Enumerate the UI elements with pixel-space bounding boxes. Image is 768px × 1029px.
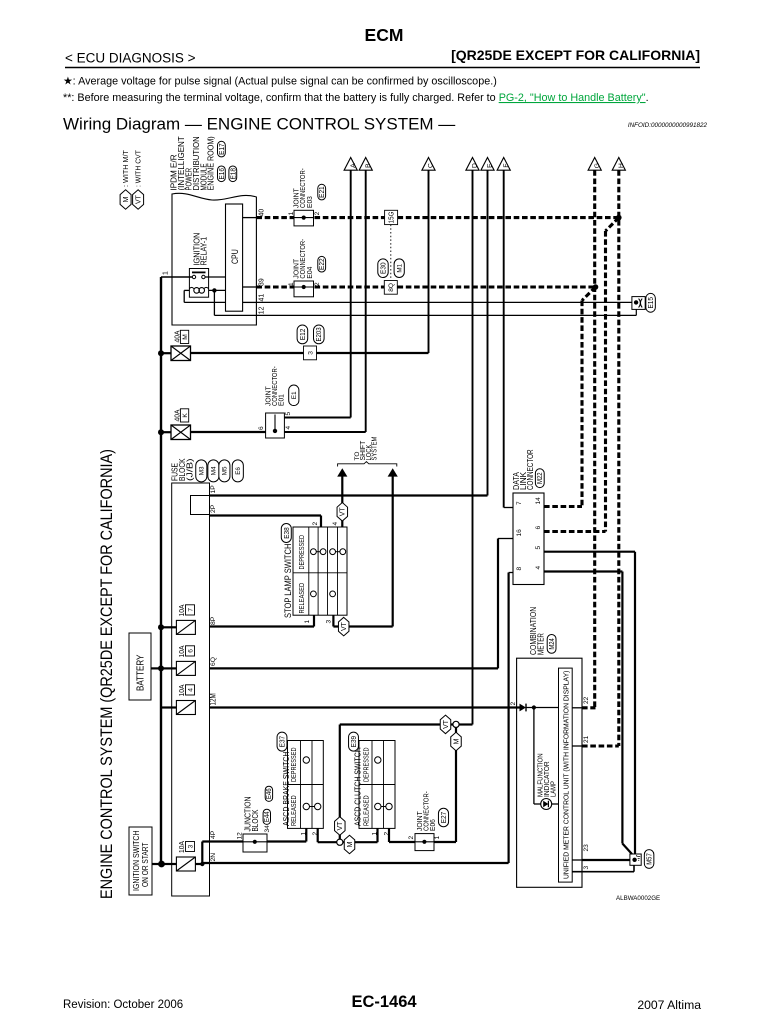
hexagon VT stop pin4	[337, 503, 348, 522]
svg-text:VT: VT	[443, 719, 450, 729]
junction dot bus ignition	[158, 861, 165, 868]
svg-text:3: 3	[325, 620, 332, 624]
svg-text:E03: E03	[305, 196, 314, 208]
svg-text:(J/B): (J/B)	[185, 458, 195, 481]
svg-text:E37: E37	[277, 736, 286, 748]
svg-text:3: 3	[187, 844, 194, 848]
svg-text:4P: 4P	[210, 830, 217, 839]
svg-text:E38: E38	[282, 527, 291, 539]
wire 40A-K to E01	[161, 431, 171, 433]
svg-text:[QR25DE EXCEPT FOR CALIFORNIA]: [QR25DE EXCEPT FOR CALIFORNIA]	[451, 47, 700, 63]
triangle F	[497, 158, 510, 171]
wire 12M	[210, 706, 520, 708]
svg-text:INFOID:0000000000991822: INFOID:0000000000991822	[628, 122, 708, 129]
junction block box	[243, 834, 267, 852]
svg-text:8: 8	[516, 567, 523, 571]
joint connector E03	[294, 210, 314, 226]
svg-text:12: 12	[237, 832, 244, 840]
wire 6Q	[210, 667, 499, 669]
wire coil left	[184, 289, 189, 291]
E03 labels	[288, 168, 321, 215]
connector oval E16	[217, 166, 226, 182]
connector oval E27	[438, 808, 448, 827]
wire riser B	[365, 170, 367, 432]
svg-text:34: 34	[264, 825, 271, 833]
brake pin labels	[301, 832, 320, 836]
wire meter pin23 to ground	[572, 859, 582, 861]
svg-text:2: 2	[312, 522, 319, 526]
connector oval M1	[394, 259, 404, 278]
svg-text:3: 3	[583, 866, 590, 870]
svg-text:40: 40	[258, 209, 265, 217]
wire 1P	[210, 494, 488, 496]
wire riser A	[350, 170, 352, 417]
clutch pin labels	[372, 832, 391, 836]
battery box	[129, 633, 151, 700]
wire bypass vertical	[339, 725, 341, 840]
svg-text:10A: 10A	[177, 604, 186, 617]
svg-text:2N: 2N	[210, 853, 217, 862]
svg-text:ASCD BRAKE SWITCH: ASCD BRAKE SWITCH	[281, 752, 291, 826]
svg-text:M5: M5	[222, 466, 229, 475]
wire MIL branch	[533, 708, 535, 805]
svg-text:ENGINE ROOM): ENGINE ROOM)	[206, 136, 216, 190]
wire MIL to unit	[552, 803, 559, 805]
svg-text:ALBWA0002GE: ALBWA0002GE	[616, 895, 660, 902]
wire M branch down	[455, 728, 457, 843]
svg-text:F: F	[503, 164, 510, 168]
junction block label	[243, 797, 261, 832]
wire diode to meter unit	[526, 707, 559, 709]
svg-text:4: 4	[535, 566, 542, 570]
svg-text:VT: VT	[337, 821, 344, 831]
joint connector E01 box	[266, 413, 285, 438]
arrow to shift lock left	[337, 468, 347, 476]
wire 4P riser	[201, 842, 203, 865]
connector oval E1	[289, 385, 299, 406]
wire meter pin21	[572, 745, 582, 747]
connector oval M3	[196, 460, 207, 482]
wire riser G dashed	[593, 170, 596, 708]
svg-text:2: 2	[314, 211, 321, 215]
joint connector E06 box	[415, 834, 434, 851]
svg-text:23: 23	[583, 844, 590, 852]
label 40A M	[173, 330, 182, 343]
svg-text:ENGINE CONTROL SYSTEM (QR25DE: ENGINE CONTROL SYSTEM (QR25DE EXCEPT FOR…	[97, 449, 116, 899]
connector box 3 on 40A-M wire	[304, 346, 317, 360]
triangle E	[481, 158, 494, 171]
svg-text:E39: E39	[349, 736, 358, 748]
svg-text:RELAY-1: RELAY-1	[200, 236, 209, 265]
shift lock label	[354, 437, 379, 461]
svg-text:7: 7	[516, 501, 523, 505]
wire dashed x605 down	[604, 231, 607, 532]
svg-text:SYSTEM: SYSTEM	[370, 437, 379, 461]
svg-text:6: 6	[187, 649, 194, 653]
svg-text:C: C	[428, 163, 435, 168]
fuse block box	[172, 483, 210, 896]
connector oval M22	[535, 469, 544, 488]
wire main bus	[160, 277, 162, 864]
svg-text:10A: 10A	[177, 684, 186, 697]
svg-text:2P: 2P	[210, 504, 217, 513]
svg-text:E44: E44	[264, 811, 271, 822]
wire ignition switch to bus	[152, 863, 162, 865]
svg-text:E6: E6	[235, 467, 242, 475]
wire CPU pin40 dashed	[256, 216, 617, 219]
wire DLC pin6 dashed	[544, 530, 606, 533]
wire 2N riser to DLC8	[508, 573, 510, 864]
svg-text:2: 2	[314, 282, 321, 286]
svg-text:12M: 12M	[208, 693, 217, 705]
wire DLC pin4 diagonal to ground	[622, 844, 632, 855]
wire riser H dashed	[617, 170, 620, 746]
svg-text:RELEASED: RELEASED	[297, 583, 306, 614]
E06 labels	[408, 791, 441, 840]
svg-text:BLOCK: BLOCK	[250, 809, 260, 831]
svg-text:E203: E203	[316, 327, 323, 341]
IPDM E/R box	[172, 193, 256, 325]
svg-text:ASCD CLUTCH SWITCH: ASCD CLUTCH SWITCH	[353, 747, 363, 826]
wire 4P run	[202, 840, 243, 842]
svg-text:E1: E1	[291, 391, 298, 399]
svg-text:3: 3	[307, 351, 314, 355]
connector oval E6	[232, 460, 243, 482]
wire circle to riser D	[459, 723, 472, 725]
svg-text:H: H	[618, 163, 625, 168]
svg-text:M4: M4	[211, 466, 218, 475]
svg-text:M: M	[182, 334, 189, 340]
svg-text:< ECU DIAGNOSIS >: < ECU DIAGNOSIS >	[65, 51, 196, 66]
wire E06 pin1 to M branch	[434, 841, 456, 843]
svg-text:VT: VT	[341, 621, 348, 631]
junction dot dashed1 right	[616, 215, 622, 221]
svg-text:E17: E17	[217, 143, 226, 155]
connector oval E17	[217, 141, 226, 157]
wire fuse3 in	[162, 863, 177, 865]
connector oval E38	[281, 524, 291, 543]
wire meter pin3 to ground	[572, 871, 634, 873]
junction dot coil	[212, 288, 216, 292]
triangle H	[612, 158, 625, 171]
svg-text:B: B	[365, 163, 372, 168]
option circle upper	[453, 721, 459, 727]
wire 8P	[210, 625, 315, 627]
connector oval E12	[297, 325, 308, 344]
svg-text:10A: 10A	[177, 840, 186, 853]
wire fuse7 in	[161, 626, 176, 628]
ASCD clutch switch E39 box	[359, 741, 395, 829]
wire dashed x582 down	[580, 301, 583, 507]
relay contact bar	[192, 271, 206, 273]
dotted link 15G-8Q	[390, 225, 392, 281]
junction dot bus fuse6	[158, 665, 164, 671]
data link connector box	[513, 493, 544, 585]
relay coil	[194, 288, 200, 294]
wire CPU pin39 stub	[243, 286, 257, 288]
junction dot bus 40A-M	[158, 350, 164, 356]
svg-text:14: 14	[535, 497, 542, 505]
wire meter pin22	[572, 707, 582, 709]
hexagon M ascd	[344, 835, 355, 854]
svg-text:6: 6	[535, 526, 542, 530]
wire battery to bus	[151, 667, 161, 669]
wire bypass horizontal	[340, 723, 453, 725]
svg-text:1: 1	[288, 282, 295, 286]
clutch switch contacts	[375, 757, 393, 810]
svg-text:E22: E22	[317, 258, 326, 270]
connector oval E44	[263, 809, 271, 824]
svg-text:VT: VT	[136, 194, 143, 204]
connector oval M5	[219, 460, 230, 482]
svg-text:M57: M57	[645, 853, 654, 865]
triangle G	[588, 158, 601, 171]
svg-text:CPU: CPU	[230, 249, 241, 264]
fuse 10A 3	[176, 857, 195, 871]
legend hexagon M	[120, 190, 131, 210]
clutch switch state labels	[361, 748, 370, 827]
wire DLC pin14 dashed	[544, 505, 582, 508]
svg-text:E18: E18	[228, 168, 237, 180]
fuse block label	[170, 458, 195, 481]
svg-text:2007 Altima: 2007 Altima	[637, 998, 701, 1012]
svg-text:4: 4	[332, 522, 339, 526]
combination meter label	[528, 607, 545, 655]
svg-text:D: D	[472, 163, 479, 168]
wire stop pin1 drop	[313, 615, 315, 626]
svg-text:M22: M22	[535, 472, 544, 484]
connector oval E37	[277, 732, 287, 751]
svg-text:M3: M3	[198, 466, 205, 475]
svg-text:E01: E01	[277, 394, 286, 406]
E01 labels	[258, 366, 292, 430]
MIL label	[535, 753, 557, 797]
svg-text:★: Average voltage for pulse s: ★: Average voltage for pulse signal (Act…	[63, 76, 497, 88]
svg-text:1: 1	[288, 211, 295, 215]
svg-text:M24: M24	[547, 638, 556, 650]
wire DLC pin4	[544, 570, 622, 572]
svg-text:6Q: 6Q	[210, 657, 217, 666]
connector oval E30	[378, 259, 388, 278]
svg-text:7: 7	[187, 608, 194, 612]
svg-text:E27: E27	[439, 812, 448, 824]
svg-text:2: 2	[408, 836, 415, 840]
svg-text:: WITH M/T: : WITH M/T	[122, 149, 130, 187]
svg-text:1: 1	[162, 271, 169, 275]
svg-text:Revision: October 2006: Revision: October 2006	[63, 999, 183, 1011]
wire E15 pin41 line	[256, 301, 632, 303]
svg-text:A: A	[350, 163, 357, 168]
wire fuse6 in	[161, 667, 176, 669]
stop lamp switch state labels	[297, 535, 306, 614]
svg-text:E: E	[487, 163, 494, 168]
stop lamp switch contacts depressed	[311, 549, 346, 555]
svg-text:2: 2	[510, 702, 517, 706]
svg-text:12: 12	[258, 306, 265, 314]
wire 2P	[210, 514, 322, 516]
svg-text:VT: VT	[340, 507, 347, 517]
wire stop pin4 riser	[341, 475, 343, 527]
wire DLC pin5	[544, 551, 635, 553]
IPDM label text	[168, 136, 215, 191]
ignition switch label	[132, 831, 150, 892]
svg-text:4: 4	[285, 426, 292, 430]
svg-text:E15: E15	[646, 297, 655, 309]
joint connector E04	[294, 281, 314, 297]
diode D1	[520, 704, 527, 712]
connector box 15G	[385, 210, 398, 224]
label 40A K	[173, 409, 182, 422]
svg-text:1: 1	[372, 832, 379, 836]
ground connector M57 box	[630, 854, 641, 865]
wire CPU pin40 stub	[243, 217, 257, 219]
svg-text:E21: E21	[317, 186, 326, 198]
hexagon VT bypass	[440, 715, 451, 734]
svg-text:1: 1	[434, 836, 441, 840]
wire 2N	[202, 862, 508, 864]
wire fuse3 out	[195, 863, 202, 865]
wire 6Q riser to DLC16	[497, 539, 499, 669]
svg-text:M: M	[123, 196, 130, 202]
stop lamp switch contacts released	[311, 591, 336, 597]
svg-text:G: G	[594, 163, 601, 168]
junction dot 2N-4P	[200, 862, 204, 866]
connector oval M57	[644, 850, 654, 869]
wire CPU pin41 inside	[243, 301, 257, 303]
svg-text:M: M	[453, 738, 460, 744]
wire clutch pin2 to E06	[388, 828, 390, 842]
connector oval E46	[265, 786, 273, 801]
connector oval E18	[228, 166, 237, 182]
svg-text:39: 39	[258, 278, 265, 286]
wire riser F	[503, 170, 505, 507]
wire brake pin2 to circle	[317, 828, 319, 842]
fuse 10A 6	[176, 661, 195, 675]
shift lock bracket	[338, 462, 397, 467]
svg-text:CONNECTOR: CONNECTOR	[525, 449, 535, 490]
svg-text:Wiring Diagram — ENGINE CONTRO: Wiring Diagram — ENGINE CONTROL SYSTEM —	[63, 115, 455, 134]
connector oval E203	[314, 325, 325, 344]
svg-text:4: 4	[187, 688, 194, 692]
connector oval M24	[547, 635, 556, 654]
junction dot MIL	[532, 705, 536, 709]
connector oval E39	[349, 732, 359, 751]
svg-text:8P: 8P	[210, 616, 217, 625]
wire coil branch down	[213, 290, 215, 315]
wire 40A-M output	[161, 352, 171, 354]
junction block pin labels	[237, 825, 272, 840]
MIL lamp	[541, 799, 552, 810]
arrow to shift lock right	[388, 468, 398, 476]
svg-text:BATTERY: BATTERY	[136, 654, 147, 691]
svg-text:**: Before measuring the termi: **: Before measuring the terminal voltag…	[63, 92, 649, 104]
combination meter box	[517, 658, 582, 887]
svg-text:E46: E46	[266, 788, 273, 799]
wire coil right to CPU	[209, 289, 226, 291]
hexagon M bypass	[451, 732, 462, 751]
svg-text:E04: E04	[305, 266, 314, 279]
E04 labels	[288, 239, 321, 286]
svg-text:41: 41	[258, 294, 265, 302]
connector oval M4	[208, 460, 219, 482]
svg-text:M1: M1	[396, 263, 403, 272]
triangle C	[422, 158, 435, 171]
wire riser D	[472, 170, 474, 724]
svg-text:M: M	[347, 841, 354, 847]
fuse block inner box	[191, 496, 210, 515]
wire dashed diagonal G	[582, 287, 596, 301]
hexagon VT bypass lower	[335, 817, 346, 836]
DLC label	[511, 449, 535, 490]
svg-text:E06: E06	[428, 819, 437, 831]
svg-text:ECM: ECM	[365, 25, 404, 45]
svg-text:15G: 15G	[387, 211, 396, 223]
svg-text:E12: E12	[298, 329, 307, 341]
svg-text:K: K	[182, 413, 189, 418]
wire fuse4 in	[161, 706, 176, 708]
connector E15 box	[632, 297, 645, 310]
svg-text:5: 5	[285, 412, 292, 416]
junction dot dashed2 right	[593, 284, 599, 290]
wire riser C	[428, 170, 430, 353]
triangle A	[344, 158, 357, 171]
CPU box U1	[226, 204, 243, 311]
wire dashed diagonal H	[606, 218, 619, 231]
svg-text:STOP LAMP SWITCH: STOP LAMP SWITCH	[283, 544, 293, 618]
fusible link 40A K	[171, 425, 191, 440]
svg-text:1P: 1P	[210, 485, 217, 494]
junction dot bus fuse7	[158, 624, 164, 630]
wire riser E	[487, 170, 489, 495]
ASCD brake switch E37 box	[288, 741, 324, 829]
svg-text:21: 21	[583, 735, 590, 743]
svg-text:EC-1464: EC-1464	[351, 993, 417, 1011]
fuse 10A 7	[176, 620, 195, 634]
svg-text:8Q: 8Q	[388, 283, 395, 292]
wire relay pin1 to bus	[161, 276, 192, 278]
svg-text:E30: E30	[378, 262, 387, 274]
stop lamp switch E38 box	[293, 527, 347, 615]
wire CPU pin39 dashed	[256, 285, 593, 288]
hexagon VT stop pin3	[338, 617, 349, 636]
relay contact terminals	[192, 275, 195, 278]
ignition switch box	[129, 827, 152, 895]
brake switch state labels	[289, 748, 298, 827]
ignition relay K1 box	[189, 269, 208, 298]
svg-text:ON OR START: ON OR START	[141, 842, 150, 887]
svg-text:E16: E16	[217, 168, 226, 180]
wire relay contact to CPU	[205, 276, 225, 278]
connector box 8Q	[384, 281, 397, 295]
triangle B	[359, 158, 372, 171]
wire stop pin2 riser	[320, 516, 322, 528]
svg-text:IGNITION SWITCH: IGNITION SWITCH	[132, 831, 141, 892]
unified meter control unit box	[559, 668, 573, 882]
triangle D	[466, 158, 479, 171]
connector oval E22	[317, 256, 326, 272]
junction dot bus 40A-K	[158, 429, 164, 435]
header rule	[65, 67, 700, 69]
fuse 10A 4	[176, 701, 195, 715]
svg-text:LAMP: LAMP	[548, 781, 557, 797]
wire E15 pin12 line	[256, 314, 636, 316]
fusible link 40A M	[171, 346, 191, 361]
svg-text:6: 6	[258, 426, 265, 430]
option circle lower	[337, 839, 343, 845]
svg-text:5: 5	[535, 546, 542, 550]
legend hexagon VT	[133, 190, 144, 210]
wire circle to clutch pin1	[343, 841, 378, 843]
